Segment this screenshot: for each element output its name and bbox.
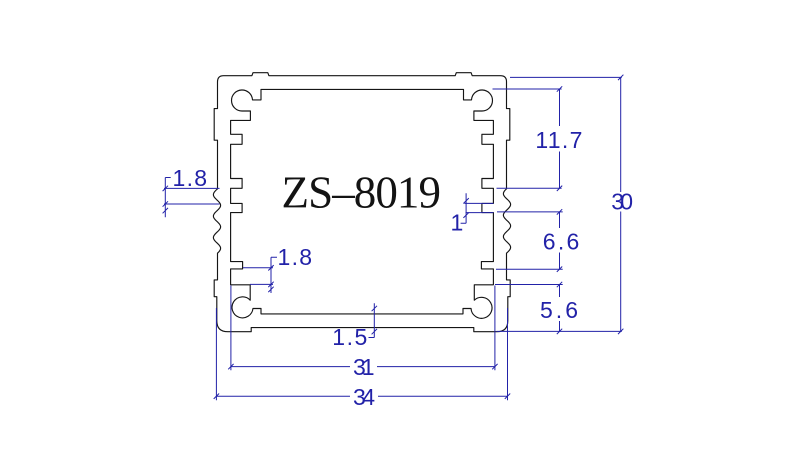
svg-text:1: 1 xyxy=(451,210,464,236)
svg-text:5.6: 5.6 xyxy=(540,297,578,323)
dim 34 line and ticks xyxy=(214,394,511,399)
svg-text:31: 31 xyxy=(353,354,375,380)
profile outer contour xyxy=(213,73,510,332)
svg-text:30: 30 xyxy=(611,189,633,215)
dim 6.6 line and ticks xyxy=(557,209,562,272)
profile inner contour xyxy=(231,89,494,318)
dim 34 extension lines xyxy=(216,308,507,400)
right side extension lines xyxy=(493,77,622,331)
dim 30 line and ticks xyxy=(618,75,623,334)
dim 1.8 lower-left leader and ticks xyxy=(268,257,277,293)
dim 5.6 line and ticks xyxy=(557,282,562,334)
svg-text:34: 34 xyxy=(353,384,375,410)
dim 1.8 upper-left leader and ticks xyxy=(163,178,171,218)
dim 11.7 line and ticks xyxy=(557,86,562,191)
svg-text:ZS–8019: ZS–8019 xyxy=(282,168,442,218)
dim 1.8 lower-left extension lines xyxy=(243,268,273,285)
dim 1.8 upper-left extension lines xyxy=(164,188,220,204)
dim 1 right leader and ticks xyxy=(461,193,469,223)
dim 31 extension lines xyxy=(231,286,495,371)
dim 1.5 leader and ticks xyxy=(369,303,378,337)
svg-text:11.7: 11.7 xyxy=(535,127,582,153)
svg-text:1.8: 1.8 xyxy=(278,244,313,270)
svg-text:1.5: 1.5 xyxy=(332,324,367,350)
dim 31 line and ticks xyxy=(228,364,497,369)
svg-text:1.8: 1.8 xyxy=(173,165,208,191)
dim 1 right extension lines xyxy=(464,203,493,212)
svg-text:6.6: 6.6 xyxy=(543,229,580,255)
